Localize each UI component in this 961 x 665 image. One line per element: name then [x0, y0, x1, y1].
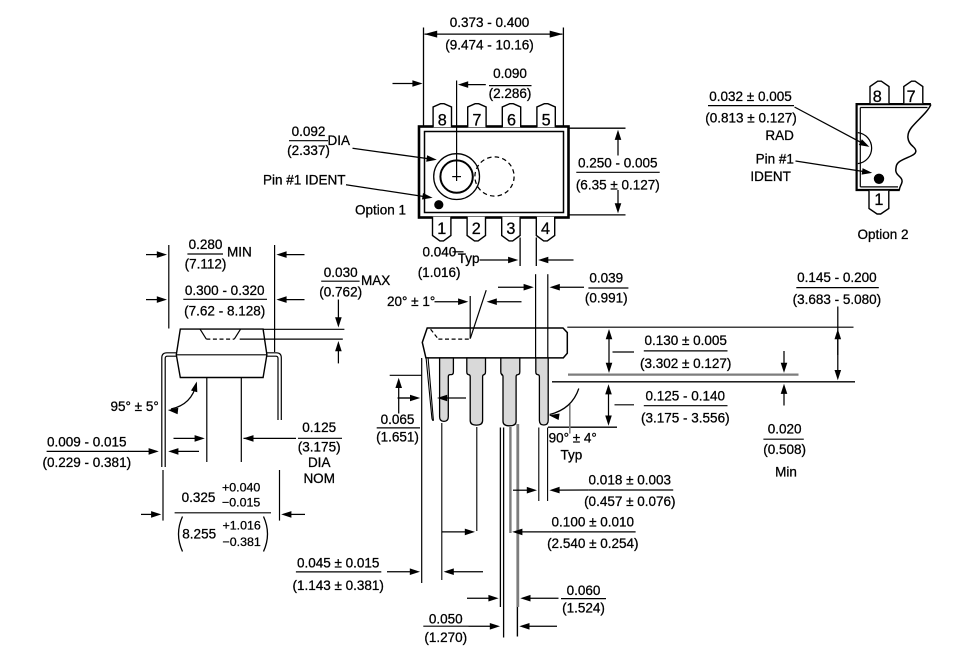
dim 0.065 tick line	[390, 374, 422, 376]
svg-text:1: 1	[874, 191, 883, 209]
svg-text:8: 8	[873, 88, 882, 106]
svg-text:(1.270): (1.270)	[424, 630, 467, 645]
option 2 body outline	[856, 103, 931, 191]
svg-text:0.020: 0.020	[768, 422, 802, 437]
svg-text:+1.016: +1.016	[223, 519, 261, 533]
svg-text:0.039: 0.039	[589, 271, 623, 286]
dim 0.030 label	[319, 265, 390, 299]
svg-text:Option 1: Option 1	[355, 202, 406, 217]
svg-text:8: 8	[438, 112, 447, 130]
svg-text:0.250 - 0.005: 0.250 - 0.005	[578, 155, 658, 170]
lead 3 gray right line	[516, 424, 518, 637]
dim 20 deg chamfer lines	[470, 290, 486, 339]
leader arrow to radius arc	[795, 107, 870, 147]
svg-text:DIA: DIA	[308, 455, 331, 470]
end view lead center lines	[207, 378, 242, 463]
svg-text:3: 3	[506, 220, 515, 238]
option 2 wavy break line	[896, 105, 931, 191]
dim 0.373-0.400 label	[445, 15, 534, 52]
svg-text:2: 2	[472, 220, 481, 238]
dim 0.373-0.400 extension lines	[424, 28, 564, 127]
dim 0.300-0.320 arrows	[146, 296, 305, 303]
body top reference line	[567, 326, 853, 328]
dim 0.050 arrows	[469, 623, 558, 630]
dim 0.125-0.140 label	[641, 388, 730, 425]
top view package body outline	[419, 127, 569, 218]
dim 0.060 arrows	[467, 595, 559, 602]
dim 0.325 arrows	[141, 511, 305, 518]
svg-text:0.009 - 0.015: 0.009 - 0.015	[47, 434, 127, 449]
body end extension line	[421, 358, 423, 583]
svg-text:0.065: 0.065	[381, 412, 415, 427]
option 2 corner radius arc	[858, 133, 872, 164]
svg-text:MAX: MAX	[361, 273, 390, 288]
top view pin 4	[536, 217, 554, 241]
lead 2 center extension line	[476, 427, 478, 531]
svg-text:NOM: NOM	[303, 471, 335, 486]
dim 0.125 label	[298, 420, 342, 486]
dim 0.050 label	[423, 612, 468, 645]
svg-text:0.300 - 0.320: 0.300 - 0.320	[185, 283, 265, 298]
svg-text:(0.762): (0.762)	[319, 284, 362, 299]
notch reference lines to right	[240, 329, 345, 339]
dim 95 deg arc	[168, 382, 198, 415]
svg-text:Min: Min	[775, 464, 797, 479]
svg-text:IDENT: IDENT	[750, 169, 791, 184]
label 95 deg	[111, 399, 159, 414]
side view lead pin 2	[467, 358, 486, 425]
svg-text:(0.508): (0.508)	[763, 442, 806, 457]
leader arrow to option 2 dot	[796, 161, 873, 175]
svg-text:90° ± 4°: 90° ± 4°	[549, 430, 597, 445]
svg-text:0.060: 0.060	[567, 583, 601, 598]
dim 0.250 label	[576, 155, 660, 192]
svg-text:(6.35 ± 0.127): (6.35 ± 0.127)	[576, 178, 660, 193]
svg-text:(3.175 - 3.556): (3.175 - 3.556)	[641, 410, 730, 425]
dim 0.090 centerline	[456, 81, 458, 173]
svg-text:8.255: 8.255	[182, 526, 216, 541]
dim 90 deg arc	[549, 389, 579, 421]
dim 0.090 label	[489, 66, 532, 101]
dim 0.145-0.200 label	[793, 270, 882, 307]
svg-text:5: 5	[542, 112, 551, 130]
svg-text:DIA: DIA	[328, 133, 351, 148]
dim 0.250 arrows	[615, 130, 622, 214]
svg-text:Typ: Typ	[458, 251, 480, 266]
end view left lead	[162, 353, 177, 467]
svg-text:(0.813 ± 0.127): (0.813 ± 0.127)	[705, 111, 796, 126]
seating plane gray line	[568, 373, 799, 375]
svg-text:(0.229 - 0.381): (0.229 - 0.381)	[43, 455, 132, 470]
svg-text:+0.040: +0.040	[222, 480, 260, 494]
lead 3 gray center line short	[509, 427, 511, 533]
side view notch dashed lines	[431, 329, 470, 339]
svg-text:0.032 ± 0.005: 0.032 ± 0.005	[709, 89, 791, 104]
dim 0.020 arrows	[781, 351, 788, 406]
svg-text:Pin #1: Pin #1	[756, 151, 794, 166]
dim 0.018 label	[584, 473, 675, 509]
svg-text:(3.175): (3.175)	[298, 440, 341, 455]
svg-text:7: 7	[907, 88, 916, 106]
top view pin 5	[537, 104, 555, 130]
side view splayed front lead	[426, 358, 433, 421]
dim 20 deg arrows	[435, 298, 522, 305]
svg-text:0.373 - 0.400: 0.373 - 0.400	[450, 15, 530, 30]
svg-text:95° ± 5°: 95° ± 5°	[111, 399, 159, 414]
dim 0.100 arrows	[442, 529, 552, 536]
svg-text:(1.651): (1.651)	[376, 429, 419, 444]
label option 2	[857, 227, 908, 242]
label Pin #1 IDENT option 1	[263, 172, 346, 187]
svg-text:0.125 - 0.140: 0.125 - 0.140	[646, 388, 726, 403]
svg-text:0.325: 0.325	[182, 490, 216, 505]
svg-text:RAD: RAD	[765, 128, 794, 143]
svg-text:(0.457 ± 0.076): (0.457 ± 0.076)	[584, 494, 675, 509]
label option 1	[355, 202, 406, 217]
svg-text:0.045 ± 0.015: 0.045 ± 0.015	[297, 556, 379, 571]
svg-text:(1.524): (1.524)	[562, 601, 605, 616]
svg-text:0.040: 0.040	[423, 244, 457, 259]
dim 0.039 label	[585, 271, 628, 306]
dim 0.280 label	[185, 237, 252, 271]
option 2 pin 8	[870, 81, 889, 106]
top view pin 7	[468, 104, 486, 130]
dim 0.065 arrows	[395, 378, 466, 414]
top view pin 8	[433, 104, 451, 130]
svg-text:0.092: 0.092	[292, 124, 326, 139]
dim 0.125 arrows	[174, 435, 297, 442]
side view lead pin 4	[536, 358, 548, 425]
dim 90 deg tick	[569, 404, 571, 434]
svg-text:0.018 ± 0.003: 0.018 ± 0.003	[589, 473, 671, 488]
svg-text:0.280: 0.280	[189, 237, 223, 252]
dim 0.018 arrows	[513, 487, 589, 494]
label 0.092 DIA	[287, 124, 350, 158]
svg-text:0.090: 0.090	[493, 66, 527, 81]
side view lead pin 1	[440, 358, 454, 421]
option 2 pin 1	[869, 191, 889, 214]
end view package body	[176, 329, 267, 377]
dim 0.045 label	[292, 556, 383, 594]
dim 0.009 label	[43, 434, 132, 470]
dim 0.130 label	[640, 333, 731, 371]
svg-text:0.145 - 0.200: 0.145 - 0.200	[797, 270, 877, 285]
dim 0.300-0.320 label	[183, 283, 267, 319]
dim 0.130 arrows	[606, 329, 634, 373]
side view package body	[422, 328, 567, 358]
svg-text:(3.683 - 5.080): (3.683 - 5.080)	[793, 292, 882, 307]
top view pin 2	[467, 217, 485, 241]
dim 0.280 arrows	[146, 251, 305, 258]
dim 0.040 arrows	[480, 257, 574, 264]
leader arrow to pin 1 dot	[346, 185, 433, 200]
dim 0.045 arrows	[387, 568, 483, 575]
dim 0.325 extension lines	[163, 470, 280, 521]
option 2 pin 1 ident dot	[874, 174, 884, 184]
svg-text:0.100 ± 0.010: 0.100 ± 0.010	[552, 515, 634, 530]
svg-text:0.130 ± 0.005: 0.130 ± 0.005	[644, 333, 726, 348]
label pin #1 ident option 2	[750, 151, 794, 184]
svg-text:MIN: MIN	[227, 244, 252, 259]
top view pin 6	[502, 104, 520, 130]
dim 0.065 label	[376, 412, 420, 445]
svg-text:Typ: Typ	[561, 447, 583, 462]
svg-text:(2.540 ± 0.254): (2.540 ± 0.254)	[547, 536, 638, 551]
svg-text:(1.016): (1.016)	[418, 265, 461, 280]
svg-text:(0.991): (0.991)	[585, 290, 628, 305]
label 90 deg	[549, 430, 597, 462]
svg-text:1: 1	[437, 220, 446, 238]
dim 0.325 label	[175, 480, 271, 551]
svg-text:(7.62 - 8.128): (7.62 - 8.128)	[184, 304, 265, 319]
top view pin 1	[433, 217, 451, 241]
dim 0.040 extension lines	[520, 238, 536, 267]
dim 0.030 arrows	[335, 300, 342, 364]
dim 0.040 label	[418, 244, 480, 280]
side view lead pin 3	[501, 358, 520, 426]
dim 0.020 label	[763, 422, 806, 480]
svg-text:0.030: 0.030	[324, 265, 358, 280]
dim 0.009 arrows	[128, 448, 199, 455]
dim 0.250 extension lines	[570, 128, 626, 215]
svg-text:(3.302 ± 0.127): (3.302 ± 0.127)	[640, 356, 731, 371]
pin 1 ident dot option 1	[434, 200, 443, 209]
dim 0.032 RAD label	[705, 89, 796, 143]
dim 0.039 arrows	[498, 284, 584, 291]
dim 0.125-0.140 arrows	[605, 384, 634, 426]
leader arrow to index circle	[353, 148, 437, 161]
label 20 deg	[387, 294, 435, 309]
svg-text:(1.143 ± 0.381): (1.143 ± 0.381)	[292, 578, 383, 593]
dashed circle option dimple	[475, 157, 514, 196]
dim 0.280 extension lines	[169, 245, 275, 352]
end view right lead	[267, 353, 282, 420]
svg-text:0.050: 0.050	[429, 612, 463, 627]
dim 0.145-0.200 arrows	[835, 307, 842, 381]
svg-text:−0.381: −0.381	[223, 535, 261, 549]
dim 0.100 label	[547, 515, 638, 551]
lead 1 edge extension line	[441, 423, 443, 580]
svg-text:Pin #1 IDENT: Pin #1 IDENT	[263, 172, 346, 187]
svg-text:−0.015: −0.015	[222, 496, 260, 510]
dim 0.060 label	[561, 583, 606, 616]
lower reference line	[552, 381, 855, 383]
svg-text:4: 4	[541, 220, 550, 238]
svg-text:(9.474 - 10.16): (9.474 - 10.16)	[445, 38, 534, 53]
svg-text:20° ± 1°: 20° ± 1°	[387, 294, 435, 309]
top view pin 3	[502, 217, 520, 241]
svg-text:0.125: 0.125	[302, 420, 336, 435]
lead 4 tip extension lines	[539, 428, 548, 502]
svg-text:6: 6	[507, 112, 516, 130]
svg-text:Option 2: Option 2	[857, 227, 908, 242]
dim 0.039 extension lines	[536, 274, 548, 358]
lead tip reference line	[548, 426, 617, 428]
dim 0.373-0.400 arrows	[424, 31, 563, 38]
lead 3 left extension lines	[500, 428, 503, 638]
svg-text:(7.112): (7.112)	[185, 257, 227, 272]
svg-text:(2.337): (2.337)	[287, 143, 330, 158]
dim 0.090 arrows	[393, 80, 486, 88]
svg-text:(2.286): (2.286)	[489, 86, 532, 101]
option 2 pin 7	[904, 81, 923, 106]
end view notch	[200, 329, 241, 339]
svg-text:7: 7	[472, 112, 481, 130]
pin 1 index circle	[434, 154, 480, 200]
